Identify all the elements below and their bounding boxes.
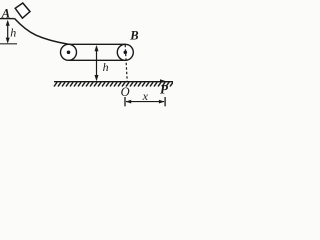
svg-text:B: B <box>129 29 138 43</box>
svg-text:h: h <box>103 60 109 74</box>
svg-text:P: P <box>160 82 169 97</box>
svg-text:h: h <box>10 25 16 39</box>
svg-text:A: A <box>1 7 10 21</box>
